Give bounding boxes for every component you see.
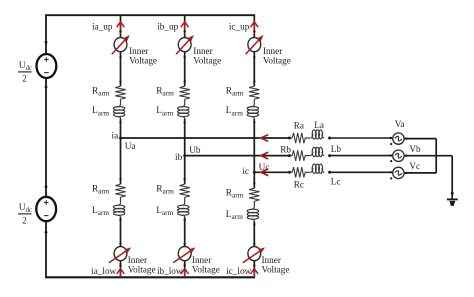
- wire: leg b lower Larm to lower source: [184, 217, 186, 246]
- inductor Larm upper b: [178, 104, 189, 118]
- wire: lower Rarm to Larm c: [253, 201, 255, 207]
- wire: leg c upper source to Rarm: [253, 52, 255, 86]
- node: port dot below lower Larm b: [184, 219, 186, 221]
- svg-text:2: 2: [22, 74, 27, 84]
- svg-text:ia_low: ia_low: [91, 266, 116, 276]
- source: lower inner voltage, phase a: [109, 247, 131, 263]
- wire: leg c node to lower Rarm: [253, 172, 255, 188]
- arrow: ib_low current (red, up): [181, 269, 189, 277]
- wire: Ra to La: [305, 137, 310, 139]
- resistor Rarm lower b: [180, 184, 190, 197]
- label ia_low: [91, 266, 116, 276]
- svg-text:Inner: Inner: [193, 46, 212, 56]
- wire: lower Rarm to Larm a: [120, 197, 122, 203]
- ground symbol: [447, 199, 458, 206]
- svg-text:ia: ia: [112, 130, 119, 140]
- label Vb: [409, 144, 421, 154]
- wire: phase c output line: [254, 171, 289, 173]
- svg-text:Rarm: Rarm: [156, 86, 174, 97]
- source: upper inner voltage, phase a: [112, 35, 130, 54]
- label Rarm upper c: [226, 86, 244, 97]
- node: port dot above lower source b: [184, 243, 186, 245]
- label Rarm lower b: [156, 184, 174, 195]
- svg-text:Rarm: Rarm: [92, 86, 110, 97]
- node: port dot right of Va: [405, 137, 407, 139]
- wire: leg a upper Larm to node: [120, 119, 122, 138]
- wire: upper Rarm to Larm a: [120, 99, 122, 105]
- inductor Lc: [310, 164, 324, 173]
- svg-text:Vc: Vc: [409, 161, 420, 171]
- node: port dot above lower Rarm b: [184, 178, 186, 180]
- svg-text:ia_up: ia_up: [92, 21, 113, 31]
- label Ra: [294, 120, 304, 130]
- source: upper inner voltage, phase c: [246, 35, 264, 54]
- inductor Larm upper a: [113, 104, 124, 118]
- label Inner Voltage (upper, phase b): [193, 46, 221, 66]
- label Rc: [294, 180, 304, 190]
- node: port dot above upper Rarm a: [119, 80, 121, 82]
- label Larm upper a: [92, 106, 109, 117]
- inductor La: [310, 130, 324, 139]
- node: junction dot on left rail (top): [45, 41, 48, 44]
- resistor Rarm lower a: [115, 184, 125, 197]
- svg-text:Larm: Larm: [226, 210, 243, 221]
- svg-text:ic_up: ic_up: [229, 21, 250, 31]
- node: port dot below upper source b: [184, 56, 186, 58]
- node: junction dot below U1: [45, 86, 48, 89]
- svg-text:Rarm: Rarm: [92, 184, 110, 195]
- wire: leg a lower source to bottom bus: [120, 261, 122, 278]
- svg-text:Larm: Larm: [156, 106, 173, 117]
- wire: upper Rarm to Larm c: [253, 99, 255, 105]
- node: port dot below upper Larm c: [253, 121, 255, 123]
- arrow: ic_up current (red, up): [251, 22, 259, 34]
- svg-text:Ua: Ua: [125, 141, 136, 151]
- label Rarm lower a: [92, 184, 110, 195]
- svg-text:2: 2: [22, 216, 27, 226]
- node: port dot below lower source c: [253, 264, 255, 266]
- svg-text:Rarm: Rarm: [226, 188, 244, 199]
- label Inner Voltage (lower, phase a): [128, 255, 156, 275]
- svg-text:Ra: Ra: [294, 120, 304, 130]
- dc source U1 Udc/2 (upper): [37, 54, 57, 78]
- node: junction dot after Lc: [328, 171, 331, 174]
- label Larm upper c: [226, 106, 243, 117]
- ac source Vc: [393, 167, 404, 178]
- node: port dot leg b above upper source: [184, 30, 186, 32]
- inductor Larm lower a: [113, 203, 124, 217]
- wire: left rail top segment: [45, 15, 47, 54]
- wire: leg b upper Larm to node: [184, 119, 186, 156]
- wire: vertical Va-Vc link: [435, 139, 437, 173]
- resistor Rb: [292, 150, 305, 160]
- wire: phase b output line: [185, 155, 290, 157]
- label Larm lower a: [92, 206, 109, 217]
- node: port dot above lower Rarm c: [253, 182, 255, 184]
- svg-text:Larm: Larm: [156, 206, 173, 217]
- wire: leg b lower source to bottom bus: [184, 261, 186, 278]
- node: junction dot at leg c output node: [253, 171, 256, 174]
- node: port dot below upper source a: [119, 56, 121, 58]
- label Udc/2 (upper): [18, 61, 32, 83]
- wire: upper Rarm to Larm b: [184, 99, 186, 105]
- svg-text:La: La: [314, 120, 324, 130]
- dc source U2 Udc/2 (lower): [36, 197, 56, 221]
- resistor Rarm upper a: [115, 86, 125, 99]
- svg-text:Rb: Rb: [280, 145, 291, 155]
- node: polarity dot Vb: [390, 160, 392, 162]
- svg-text:ib: ib: [175, 152, 183, 162]
- wire: Vc to vertical link: [404, 172, 436, 174]
- node: port dot below lower source a: [119, 264, 121, 266]
- svg-text:ic_low: ic_low: [226, 266, 251, 276]
- node: port dot right of Vc: [405, 172, 407, 174]
- label Rarm lower c: [226, 188, 244, 199]
- label ib_up: [157, 21, 178, 31]
- label Va: [395, 119, 405, 129]
- node: junction dot at leg b output node: [183, 154, 186, 157]
- wire: leg a lower Larm to lower source: [120, 217, 122, 246]
- node: junction dot before Rc: [288, 171, 291, 174]
- wire: left rail bottom segment: [45, 221, 47, 277]
- node: junction dot at leg a output node: [119, 137, 122, 140]
- label Inner Voltage (upper, phase c): [263, 46, 291, 66]
- label Larm upper b: [156, 106, 173, 117]
- wire: Vb to ground corner: [404, 155, 452, 157]
- node: port dot left of Va: [390, 137, 392, 139]
- node: dot above ground: [451, 192, 454, 195]
- label Lb: [331, 144, 342, 154]
- node: port dot above upper Rarm c: [253, 80, 255, 82]
- arrow: ic_low current (red, up): [251, 269, 259, 277]
- node: port dot below lower Larm a: [119, 219, 121, 221]
- svg-text:Larm: Larm: [92, 106, 109, 117]
- svg-text:Rc: Rc: [294, 180, 304, 190]
- svg-text:Voltage: Voltage: [128, 265, 156, 275]
- wire: leg b upper (bus to inner source): [184, 15, 186, 37]
- svg-text:Ub: Ub: [189, 145, 201, 155]
- svg-text:Voltage: Voltage: [192, 265, 220, 275]
- wire: Lb to Vb source: [331, 155, 393, 157]
- label ia_up: [92, 21, 113, 31]
- ac source Vb: [393, 150, 404, 161]
- label Udc/2 (lower): [18, 203, 32, 225]
- ac source Va: [393, 133, 404, 144]
- node: port dot above lower source a: [119, 243, 121, 245]
- svg-text:ic: ic: [242, 166, 249, 176]
- svg-text:Rarm: Rarm: [156, 184, 174, 195]
- node: port dot below upper Larm b: [184, 121, 186, 123]
- node: port dot leg a above upper source: [119, 30, 121, 32]
- wire: Lc to Vc source: [331, 171, 393, 173]
- wire: Rc to Lc: [305, 171, 310, 173]
- svg-text:Inner: Inner: [129, 46, 148, 56]
- wire: leg c lower Larm to lower source: [253, 221, 255, 246]
- node: junction dot after La: [328, 137, 331, 140]
- label Vc: [409, 161, 420, 171]
- node: junction dot above U2: [45, 185, 48, 188]
- label Larm lower c: [226, 210, 243, 221]
- node: port dot above upper Rarm b: [184, 80, 186, 82]
- svg-text:Voltage: Voltage: [129, 56, 157, 66]
- label Inner Voltage (upper, phase a): [129, 46, 157, 66]
- resistor Rc: [292, 167, 305, 177]
- node: port dot left of Vb: [390, 154, 392, 156]
- svg-text:Lc: Lc: [331, 176, 341, 186]
- wire: Va to right corner: [404, 138, 436, 140]
- label ia: [112, 130, 119, 140]
- label Rarm upper a: [92, 86, 110, 97]
- wire: lower Rarm to Larm b: [184, 197, 186, 203]
- label Ua: [125, 141, 136, 151]
- node: polarity dot Vc: [390, 177, 392, 179]
- wire: bottom DC bus: [45, 276, 255, 278]
- arrow: ia_up current (red, up): [117, 22, 125, 34]
- node: port dot left of Vc: [390, 171, 392, 173]
- svg-text:ib_up: ib_up: [157, 21, 178, 31]
- wire: dot to Ra: [291, 137, 292, 139]
- wire: phase a output line: [121, 137, 290, 139]
- node: port dot below upper Larm a: [119, 121, 121, 123]
- label Ub: [189, 145, 201, 155]
- wire: dot to Rb: [291, 155, 292, 157]
- wire: Rb to Lb: [305, 155, 310, 157]
- resistor Ra: [292, 133, 305, 143]
- source: upper inner voltage, phase b: [176, 35, 194, 54]
- inductor Lb: [310, 147, 324, 156]
- svg-text:Voltage: Voltage: [263, 56, 291, 66]
- wire: leg c upper Larm to node: [253, 119, 255, 173]
- node: port dot below lower Larm c: [253, 223, 255, 225]
- svg-text:Vb: Vb: [409, 144, 421, 154]
- svg-text:Inner: Inner: [192, 255, 211, 265]
- resistor Rarm lower c: [249, 188, 259, 201]
- resistor Rarm upper b: [180, 86, 190, 99]
- svg-text:Inner: Inner: [262, 255, 281, 265]
- svg-text:Va: Va: [395, 119, 405, 129]
- label ic: [242, 166, 249, 176]
- wire: leg a upper (bus to inner source): [120, 15, 122, 37]
- arrow: phase b current (red, left): [261, 152, 268, 159]
- arrow: ib_up current (red, up): [181, 22, 189, 34]
- label Rb: [280, 145, 291, 155]
- svg-text:Rarm: Rarm: [226, 86, 244, 97]
- node: port dot leg c above upper source: [253, 30, 255, 32]
- label Uc: [259, 162, 270, 172]
- label Larm lower b: [156, 206, 173, 217]
- svg-text:Inner: Inner: [128, 255, 147, 265]
- label Inner Voltage (lower, phase c): [262, 255, 290, 275]
- label ib: [175, 152, 183, 162]
- svg-text:Larm: Larm: [92, 206, 109, 217]
- wire: leg b upper source to Rarm: [184, 52, 186, 86]
- label ib_low: [157, 266, 183, 276]
- wire: top DC bus: [45, 14, 255, 16]
- node: junction dot before Rb: [288, 154, 291, 157]
- wire: dot to Rc: [291, 171, 292, 173]
- label Lc: [331, 176, 341, 186]
- arrow: phase c current (red, left): [261, 169, 268, 176]
- label La: [314, 120, 324, 130]
- node: junction dot before Ra: [288, 137, 291, 140]
- svg-text:Voltage: Voltage: [262, 265, 290, 275]
- source: lower inner voltage, phase b: [173, 247, 195, 263]
- svg-text:Larm: Larm: [226, 106, 243, 117]
- svg-text:Lb: Lb: [331, 144, 342, 154]
- node: port dot above lower source c: [253, 243, 255, 245]
- wire: vertical to ground: [451, 156, 453, 200]
- label ic_up: [229, 21, 250, 31]
- wire: leg a node to lower Rarm: [120, 138, 122, 184]
- wire: leg c upper (bus to inner source): [253, 15, 255, 37]
- inductor Larm lower c: [247, 207, 258, 221]
- wire: leg c lower source to bottom bus: [253, 261, 255, 278]
- node: junction dot on left rail (bottom): [45, 231, 48, 234]
- node: port dot above lower Rarm a: [119, 178, 121, 180]
- resistor Rarm upper c: [249, 86, 259, 99]
- svg-text:ib_low: ib_low: [157, 266, 183, 276]
- label ic_low: [226, 266, 251, 276]
- source: lower inner voltage, phase c: [243, 247, 265, 263]
- node: junction dot after Lb: [328, 154, 331, 157]
- wire: leg b node to lower Rarm: [184, 156, 186, 185]
- arrow: ia_low current (red, up): [117, 269, 125, 277]
- svg-text:Inner: Inner: [263, 46, 282, 56]
- svg-text:Voltage: Voltage: [193, 56, 221, 66]
- inductor Larm lower b: [178, 203, 189, 217]
- arrow: phase a current (red, left): [261, 135, 268, 142]
- wire: La to Va source: [331, 137, 393, 139]
- node: port dot right of Vb: [405, 155, 407, 157]
- label Inner Voltage (lower, phase b): [192, 255, 220, 275]
- node: port dot below upper source c: [253, 56, 255, 58]
- wire: left rail middle segment: [45, 78, 47, 197]
- wire: leg a upper source to Rarm: [120, 52, 122, 86]
- inductor Larm upper c: [247, 104, 258, 118]
- label Rarm upper b: [156, 86, 174, 97]
- node: polarity dot Va: [390, 143, 392, 145]
- node: port dot below lower source b: [184, 264, 186, 266]
